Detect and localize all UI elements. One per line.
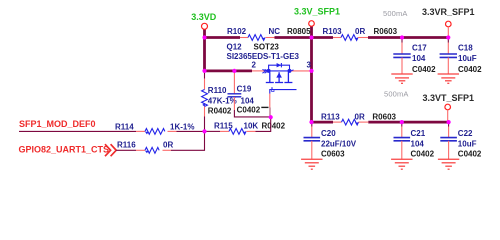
svg-text:SOT23: SOT23: [254, 42, 280, 51]
wire: bottom rail from 3.3V_SFP1 to R113: [312, 121, 334, 124]
svg-text:3.3VR_SFP1: 3.3VR_SFP1: [422, 7, 475, 17]
source arrow: [265, 69, 268, 73]
svg-text:3: 3: [307, 61, 312, 70]
capacitor C22 (10uF, C0402): [440, 122, 482, 159]
junction node 3.3V_SFP1 top rail: [309, 35, 313, 39]
junction node C17 tap: [400, 35, 404, 39]
resistor R116 (0R): [117, 141, 173, 154]
pin 3 lead: [291, 70, 311, 72]
resistor R115 (10K, R0402): [205, 122, 286, 135]
svg-text:47K-1%: 47K-1%: [208, 96, 237, 105]
svg-text:0R: 0R: [355, 112, 365, 121]
wire: 3.3V_SFP1 vertical rail: [310, 26, 313, 122]
body terminals: [267, 69, 271, 73]
capacitor C20 (22uF/10V, C0603): [304, 122, 357, 159]
capacitor C19 (104, C0402) net: [228, 71, 271, 117]
junction node bottom rail / C20: [309, 120, 313, 124]
pin 2 lead: [252, 70, 267, 72]
power symbol 3.3VT_SFP1: [423, 93, 475, 122]
power symbol 3.3VD: [191, 12, 217, 30]
resistor R103 (0R, R0603): [312, 27, 398, 41]
svg-text:0R: 0R: [355, 27, 365, 36]
svg-text:C0603: C0603: [321, 150, 345, 159]
svg-text:500mA: 500mA: [384, 89, 409, 98]
svg-text:C20: C20: [321, 129, 336, 138]
svg-text:SFP1_MOD_DEF0: SFP1_MOD_DEF0: [19, 119, 96, 129]
ground for C21: [391, 159, 412, 169]
svg-text:R102: R102: [227, 27, 247, 36]
svg-text:3.3VD: 3.3VD: [191, 12, 217, 22]
channel bars: [269, 72, 271, 82]
net label GPIO82_UART1_CTS with offpage connector: [19, 144, 117, 156]
ground for C18: [438, 74, 459, 83]
svg-text:104: 104: [241, 97, 255, 106]
ground for C17: [391, 74, 412, 83]
wire: R102 output to 3.3V_SFP1 rail: [275, 36, 312, 39]
svg-text:R114: R114: [115, 122, 134, 131]
junction node C18 / 3.3VR_SFP1: [446, 35, 450, 39]
wire: R103 output rail to 3.3VR_SFP1: [368, 36, 448, 39]
svg-text:C0402: C0402: [237, 105, 261, 114]
svg-text:R0603: R0603: [374, 27, 398, 36]
resistor R110 (47K-1%, R0402) vertical: [202, 71, 237, 131]
svg-text:3.3V_SFP1: 3.3V_SFP1: [294, 7, 340, 17]
svg-text:R103: R103: [323, 27, 343, 36]
wire: R115 output up to gate junction: [256, 117, 271, 131]
capacitor C17 (104, C0402): [393, 38, 436, 75]
junction node C21 tap: [400, 120, 404, 124]
substrate arrow: [276, 73, 282, 78]
wire: GPIO82_UART1_CTS to R116: [116, 149, 136, 151]
junction node gate net: [269, 115, 273, 119]
svg-text:2: 2: [252, 61, 257, 70]
gate lead pin 1: [270, 90, 297, 94]
resistor R114 (1K-1%): [115, 122, 205, 134]
svg-text:3.3VT_SFP1: 3.3VT_SFP1: [423, 93, 475, 103]
svg-text:C0402: C0402: [458, 150, 482, 159]
ground for C22: [438, 159, 459, 169]
svg-text:R0805: R0805: [287, 27, 311, 36]
junction node R114/R115/R110/R116: [202, 129, 206, 133]
resistor R113 (0R, R0603): [321, 112, 397, 125]
svg-text:R116: R116: [117, 141, 136, 150]
junction node C22 / 3.3VT_SFP1: [447, 120, 451, 124]
junction node Q12 drain: [309, 69, 313, 73]
svg-text:10uF: 10uF: [458, 139, 477, 148]
svg-text:0R: 0R: [163, 141, 173, 150]
svg-text:R110: R110: [208, 86, 227, 95]
wire: 3.3VD vertical rail: [203, 29, 206, 71]
svg-text:C0402: C0402: [458, 65, 482, 74]
svg-text:104: 104: [412, 54, 426, 63]
power symbol 3.3VR_SFP1: [422, 7, 475, 38]
svg-text:C19: C19: [237, 85, 252, 94]
junction node source rail left: [202, 69, 206, 73]
svg-text:104: 104: [411, 139, 425, 148]
svg-text:R113: R113: [321, 112, 340, 121]
svg-text:C0402: C0402: [412, 65, 436, 74]
junction node 3.3VD at rail: [202, 35, 206, 39]
capacitor C18 (10uF, C0402): [440, 38, 483, 75]
svg-text:C18: C18: [458, 43, 473, 52]
power symbol 3.3V_SFP1: [294, 7, 340, 27]
wire: SFP1_MOD_DEF0 to R114: [19, 130, 136, 132]
wire: source rail to Q12 pin2: [205, 70, 253, 73]
svg-text:22uF/10V: 22uF/10V: [321, 139, 357, 148]
resistor R102 (NC, R0805): [227, 27, 311, 41]
svg-text:10uF: 10uF: [458, 54, 477, 63]
wire: R113 output rail to 3.3VT_SFP1: [368, 121, 448, 124]
svg-text:R0603: R0603: [372, 112, 396, 121]
wire: gate down: [269, 94, 271, 108]
wire: gate to junction: [269, 108, 271, 118]
svg-text:1K-1%: 1K-1%: [170, 122, 194, 131]
svg-text:Q12: Q12: [227, 42, 243, 51]
svg-text:C0402: C0402: [411, 150, 435, 159]
wire: R116 output up to junction: [171, 131, 205, 150]
capacitor C21 (104, C0402): [394, 122, 435, 159]
svg-text:NC: NC: [269, 27, 281, 36]
body diode loop: [269, 65, 290, 71]
svg-text:R0402: R0402: [208, 106, 232, 115]
svg-text:C22: C22: [458, 129, 473, 138]
ground for C20: [301, 159, 322, 169]
svg-text:SI2365EDS-T1-GE3: SI2365EDS-T1-GE3: [227, 52, 300, 61]
junction node C19 tap: [232, 69, 236, 73]
wire: 3.3VD rail top horizontal: [205, 36, 241, 39]
svg-text:GPIO82_UART1_CTS: GPIO82_UART1_CTS: [19, 145, 110, 155]
svg-text:R0402: R0402: [262, 122, 286, 131]
svg-text:C17: C17: [412, 43, 427, 52]
svg-text:500mA: 500mA: [383, 9, 408, 18]
svg-text:C21: C21: [411, 129, 426, 138]
svg-text:10K: 10K: [244, 122, 259, 131]
transistor Q12 SI2365EDS-T1-GE3 SOT23: [227, 42, 312, 93]
